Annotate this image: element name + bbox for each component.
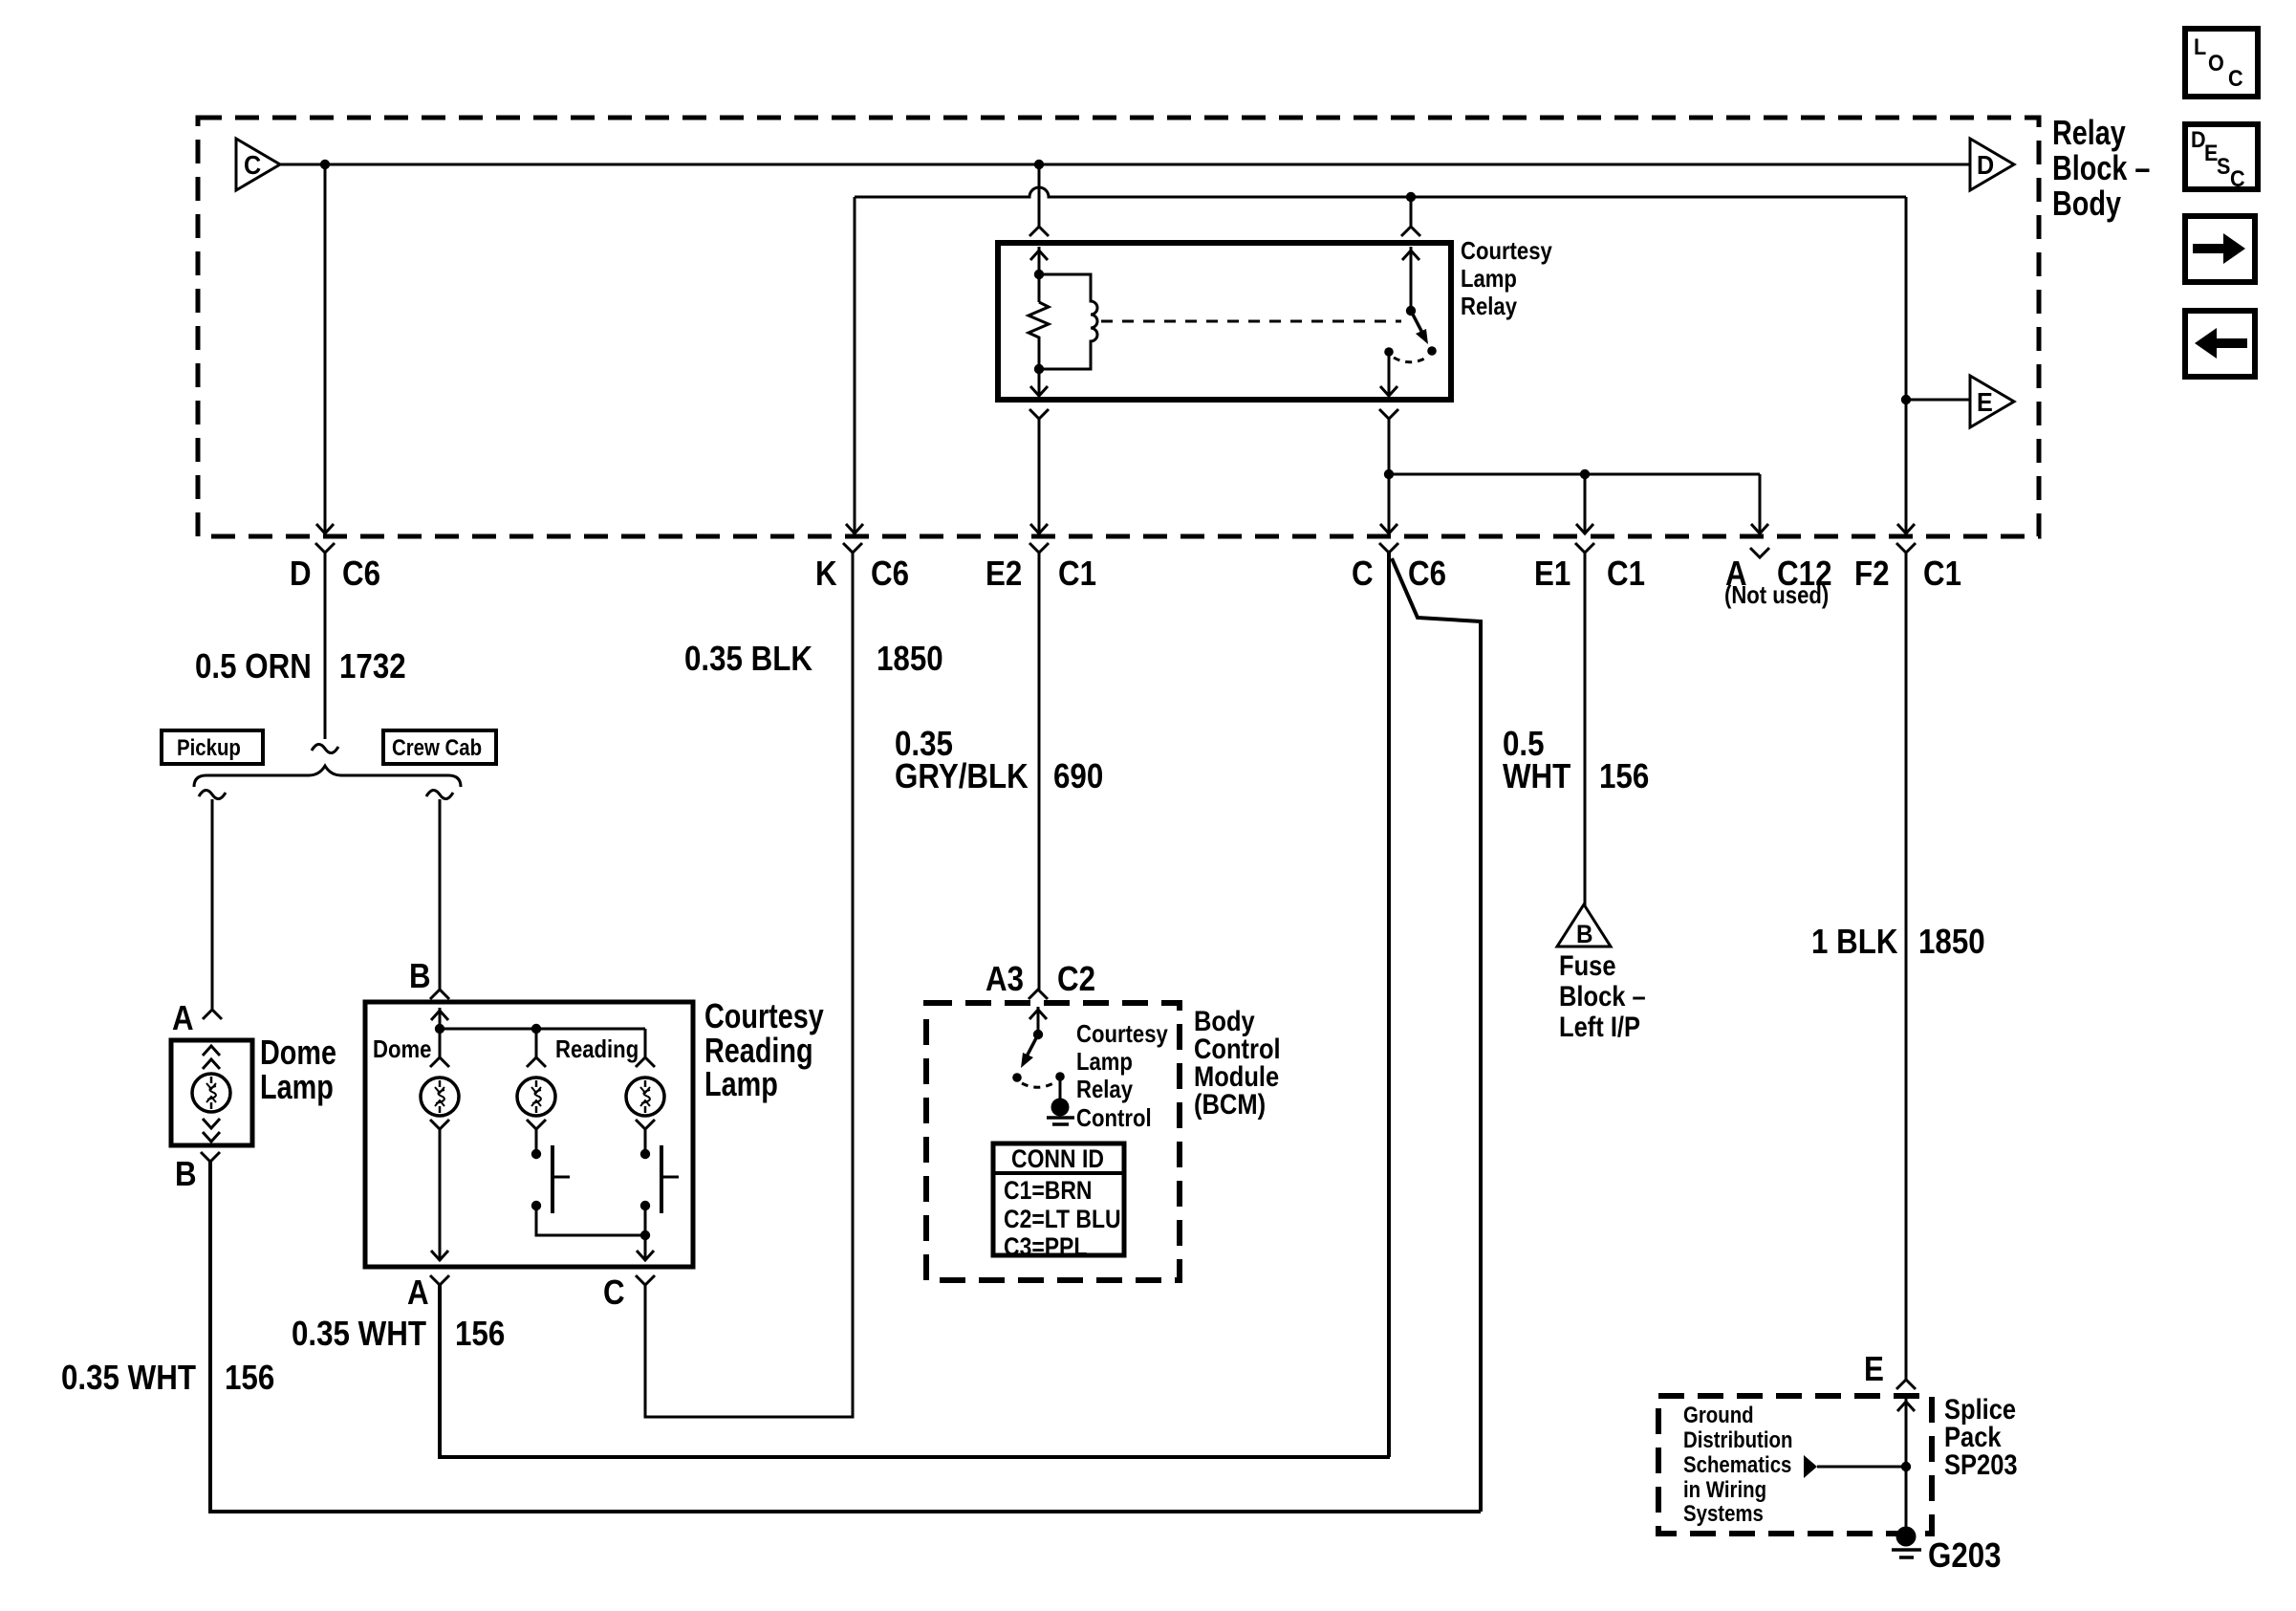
wire 0.5 ORN 1732 — [324, 553, 327, 739]
courtesy lamp internal feed — [439, 1008, 442, 1029]
relay switch fixed contact — [1384, 347, 1394, 357]
svg-text:O: O — [2208, 51, 2224, 76]
svg-text:L: L — [2194, 34, 2206, 60]
wire: crew cab branch to courtesy reading lamp B — [426, 790, 453, 798]
svg-text:CONN ID: CONN ID — [1011, 1144, 1104, 1173]
svg-text:Ground: Ground — [1683, 1403, 1754, 1428]
svg-text:Courtesy: Courtesy — [704, 996, 824, 1035]
svg-text:C: C — [2230, 166, 2245, 192]
dome lamp bulb — [192, 1074, 230, 1112]
relay switch common entry — [1410, 197, 1413, 227]
relay actuation dashed link — [1101, 320, 1401, 323]
relay coil-side internal — [1038, 247, 1041, 302]
BCM driver switch — [1037, 1007, 1040, 1034]
connector splice pin E — [1896, 1380, 1916, 1389]
courtesy reading lamp box — [365, 1002, 693, 1267]
svg-text:Schematics: Schematics — [1683, 1452, 1791, 1478]
svg-text:1 BLK: 1 BLK — [1811, 922, 1898, 961]
svg-text:K: K — [815, 554, 837, 593]
wire: C|C6 tail 2 — [1392, 558, 1481, 1512]
wire: switch output down — [1388, 419, 1391, 474]
connector pin A C12 — [1750, 548, 1769, 557]
svg-text:(Not used): (Not used) — [1724, 580, 1829, 609]
triangle connector E — [1970, 376, 2014, 427]
wire: relay coil low side E2 — [1038, 419, 1041, 533]
svg-text:C2: C2 — [1057, 959, 1095, 998]
dome lamp box — [171, 1040, 252, 1145]
wire: A drop (not used) — [1759, 474, 1762, 533]
svg-text:E: E — [1977, 387, 1993, 417]
schematics pointer — [1804, 1455, 1817, 1478]
svg-text:Block –: Block – — [1559, 981, 1646, 1012]
triangle connector C — [236, 139, 280, 190]
relay switch output connector — [1379, 409, 1398, 419]
svg-text:C1: C1 — [1058, 554, 1096, 593]
connector pin F2 C1 — [1896, 543, 1916, 553]
wire: K drop inside relay block — [854, 197, 856, 533]
connector pin E2 C1 — [1029, 543, 1049, 553]
dome lamp internal chevrons top — [203, 1046, 220, 1056]
svg-text:Lamp: Lamp — [704, 1064, 778, 1103]
svg-text:E: E — [1864, 1349, 1884, 1388]
svg-text:C3=PPL: C3=PPL — [1004, 1232, 1087, 1261]
splice pack dashed box — [1658, 1396, 1932, 1534]
wire: coil feed drop — [1038, 164, 1041, 227]
wire: feed from C to D (top horizontal) — [280, 163, 1970, 166]
wire: E1 drop — [1584, 474, 1587, 533]
connector dome lamp pin A — [203, 1010, 222, 1019]
wire: relay feed horizontal with hop — [855, 187, 1906, 197]
svg-text:0.35 BLK: 0.35 BLK — [684, 639, 812, 678]
relay internal resistor — [1029, 302, 1049, 369]
svg-text:C: C — [1352, 554, 1374, 593]
svg-text:0.5 ORN: 0.5 ORN — [195, 646, 312, 686]
CONN ID table — [993, 1143, 1124, 1255]
relay block body dashed boundary — [198, 118, 2039, 536]
relay switch connector top — [1401, 227, 1420, 236]
connector pin E1 C1 — [1575, 543, 1594, 553]
svg-text:D: D — [290, 554, 312, 593]
svg-text:Distribution: Distribution — [1683, 1427, 1792, 1453]
dome bulb lower connector — [430, 1120, 449, 1129]
svg-text:156: 156 — [455, 1314, 505, 1353]
reading bulb2 lower connector — [636, 1120, 655, 1129]
wire to triangle E — [1906, 399, 1970, 402]
connector courtesy pin C — [636, 1275, 655, 1285]
courtesy lamp relay box — [998, 243, 1451, 400]
svg-text:C: C — [2228, 66, 2243, 92]
svg-text:156: 156 — [1599, 756, 1649, 795]
svg-text:1850: 1850 — [877, 639, 943, 678]
svg-text:G203: G203 — [1928, 1535, 2002, 1575]
svg-text:A: A — [407, 1273, 429, 1312]
relay switch arm — [1406, 306, 1416, 316]
svg-text:Relay: Relay — [1076, 1075, 1133, 1103]
option brace — [194, 766, 461, 787]
relay coil output connector — [1029, 409, 1049, 419]
svg-text:D: D — [1977, 150, 1994, 180]
dome bulb connector — [430, 1057, 449, 1067]
svg-text:0.35 WHT: 0.35 WHT — [61, 1358, 196, 1397]
svg-text:0.35 WHT: 0.35 WHT — [292, 1314, 426, 1353]
wire: F2 branch from relay feed — [1905, 197, 1908, 533]
relay coil connector top — [1029, 227, 1049, 236]
wire: dome lamp B ground run — [210, 1162, 1481, 1512]
wire 0.35 GRY/BLK 690 to BCM — [1038, 553, 1041, 990]
reading bulb1 lower connector — [527, 1120, 546, 1129]
svg-text:C1=BRN: C1=BRN — [1004, 1176, 1093, 1205]
svg-text:Fuse: Fuse — [1559, 950, 1616, 982]
connector dome lamp pin B — [201, 1152, 220, 1162]
reading bulb2 connector — [636, 1057, 655, 1067]
wire: courtesy A to relay switch run — [440, 1285, 1390, 1457]
svg-text:Relay: Relay — [1461, 292, 1517, 320]
svg-text:E2: E2 — [986, 554, 1022, 593]
svg-text:Relay: Relay — [2052, 113, 2126, 152]
svg-text:F2: F2 — [1854, 554, 1890, 593]
wire 1 BLK 1850 to splice pack — [1905, 553, 1908, 1380]
reading bulb 2 — [626, 1078, 664, 1116]
relay coil — [1039, 274, 1097, 369]
connector BCM pin A3 C2 — [1029, 990, 1048, 999]
ground G203 — [1896, 1527, 1917, 1547]
svg-text:Dome: Dome — [260, 1033, 336, 1072]
svg-text:A3: A3 — [986, 959, 1024, 998]
svg-text:in Wiring: in Wiring — [1683, 1477, 1766, 1503]
svg-text:E1: E1 — [1534, 554, 1570, 593]
back arrow box — [2185, 311, 2255, 377]
svg-text:C1: C1 — [1923, 554, 1961, 593]
LOC box — [2185, 29, 2258, 97]
svg-text:S: S — [2217, 154, 2230, 180]
connector pin K C6 — [843, 543, 862, 553]
Crew Cab option box — [383, 730, 496, 764]
svg-text:690: 690 — [1053, 756, 1103, 795]
Pickup option box — [162, 730, 263, 764]
svg-text:Courtesy: Courtesy — [1076, 1019, 1168, 1048]
wire: branch to E1 and A — [1389, 473, 1760, 476]
wire 0.5 WHT 156 to fuse block — [1584, 553, 1587, 905]
svg-text:Control: Control — [1076, 1103, 1152, 1132]
svg-text:B: B — [409, 956, 431, 995]
svg-text:Lamp: Lamp — [1076, 1047, 1133, 1076]
svg-text:WHT: WHT — [1503, 756, 1570, 795]
BCM internal ground — [1059, 1077, 1062, 1099]
svg-text:B: B — [175, 1154, 197, 1193]
wire: C|C6 tail 1 — [1387, 553, 1391, 1457]
svg-text:Crew Cab: Crew Cab — [392, 735, 482, 761]
svg-text:C1: C1 — [1607, 554, 1645, 593]
connector pin D C6 — [315, 543, 335, 553]
svg-text:Pickup: Pickup — [177, 735, 241, 761]
wire: drop to D|C6 — [324, 164, 327, 533]
svg-text:Block –: Block – — [2052, 148, 2150, 187]
connector courtesy lamp pin B — [430, 990, 449, 999]
wire: courtesy C to K|C6 (U link) — [645, 553, 853, 1417]
forward arrow box — [2185, 216, 2255, 282]
triangle connector B fuse block — [1557, 904, 1611, 947]
wire: pickup branch to dome lamp A — [199, 790, 226, 798]
reading switch 1 — [531, 1149, 541, 1159]
splice internal wire — [1905, 1396, 1908, 1534]
svg-text:Left I/P: Left I/P — [1559, 1012, 1640, 1043]
reading bulb 1 branch — [535, 1029, 538, 1057]
svg-text:C: C — [244, 150, 261, 180]
DESC box — [2185, 124, 2258, 189]
svg-text:B: B — [1576, 920, 1593, 948]
dome lamp internal chevrons bottom — [203, 1119, 220, 1128]
svg-text:A: A — [172, 998, 194, 1037]
dome bulb branch — [439, 1029, 442, 1057]
reading bulb 1 — [517, 1078, 555, 1116]
svg-text:Lamp: Lamp — [1461, 264, 1517, 293]
connector pin C C6 — [1379, 543, 1398, 553]
svg-text:Lamp: Lamp — [260, 1067, 334, 1106]
svg-text:1850: 1850 — [1918, 922, 1985, 961]
svg-text:Dome: Dome — [373, 1034, 431, 1063]
svg-text:Courtesy: Courtesy — [1461, 236, 1552, 265]
connector courtesy pin A — [430, 1275, 449, 1285]
junction at coil drop — [1034, 160, 1044, 169]
reading bulb1 connector — [527, 1057, 546, 1067]
svg-text:SP203: SP203 — [1944, 1449, 2018, 1481]
svg-text:C6: C6 — [871, 554, 909, 593]
svg-text:Reading: Reading — [555, 1034, 639, 1063]
junction at D drop — [320, 160, 330, 169]
svg-text:GRY/BLK: GRY/BLK — [895, 756, 1029, 795]
courtesy dome bulb — [421, 1078, 459, 1116]
svg-text:(BCM): (BCM) — [1194, 1089, 1266, 1121]
svg-text:C: C — [603, 1273, 625, 1312]
reading bulb 2 branch — [644, 1029, 647, 1057]
svg-text:C2=LT BLU: C2=LT BLU — [1004, 1205, 1121, 1233]
svg-text:Body: Body — [2052, 184, 2121, 223]
svg-text:C6: C6 — [1408, 554, 1446, 593]
reading switch 2 — [640, 1149, 650, 1159]
svg-text:156: 156 — [225, 1358, 274, 1397]
svg-text:1732: 1732 — [339, 646, 406, 686]
svg-text:Systems: Systems — [1683, 1501, 1764, 1527]
svg-text:C6: C6 — [342, 554, 380, 593]
triangle connector D — [1970, 139, 2014, 190]
body control module dashed box — [926, 1003, 1180, 1280]
